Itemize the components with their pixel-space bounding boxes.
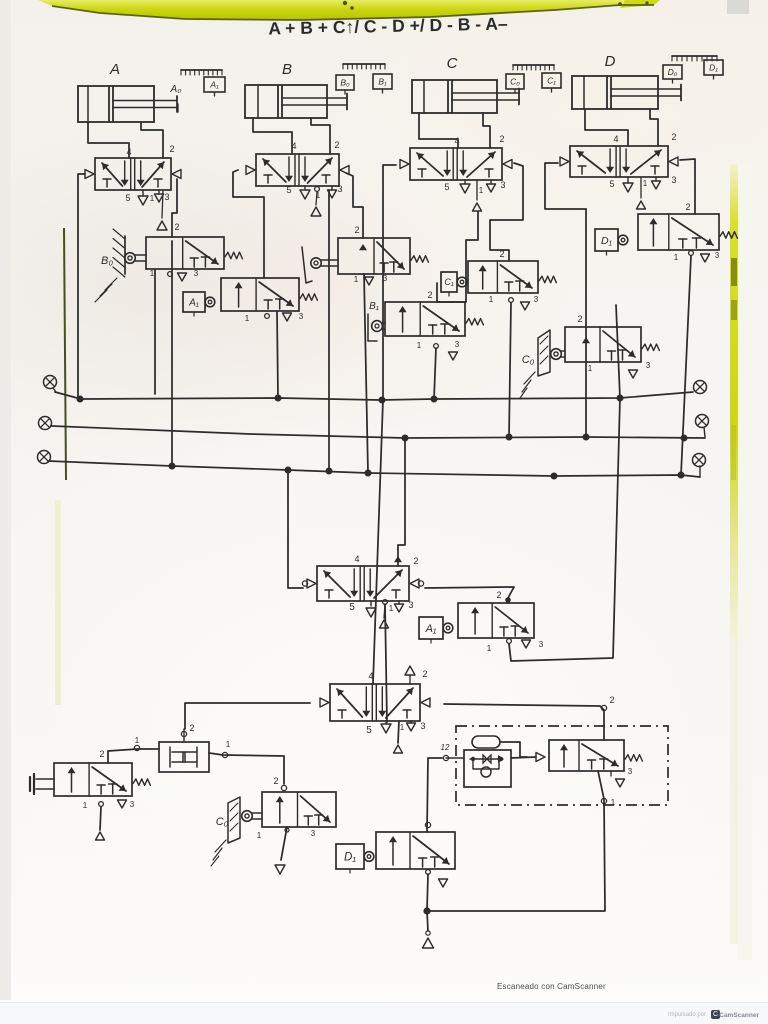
valve A1 actuator box [183,292,215,316]
svg-text:D₀: D₀ [668,67,678,77]
junction under mid valve 1 [383,600,388,605]
junction bus3 x554 [551,473,558,480]
wire cyl A rod to valve A port 2 [141,122,163,158]
wire valve B1 out2 up [437,212,478,302]
valve plunger 3/2 [54,763,150,796]
wire valve A left pilot to bus 1 [78,174,85,399]
svg-text:2: 2 [496,590,501,600]
valve B 5/2 [246,140,349,200]
valve B1 3/2 roller [369,301,483,336]
valve C1-row2 port labels [577,314,650,373]
valve D1-row2 actuator box [595,229,628,255]
svg-text:2: 2 [354,225,359,235]
wire bus3 to mid valve 1 left pilot [288,470,303,588]
valve D1-row2 port labels [674,202,720,262]
svg-text:5: 5 [609,179,614,189]
wire valve D1-bot out2 to flow control port 12 [427,758,442,832]
svg-text:2: 2 [422,669,427,679]
svg-text:1: 1 [150,194,155,203]
svg-text:3: 3 [628,767,633,776]
mid valve 1 5/2 [302,554,423,613]
svg-text:A: A [109,61,120,78]
svg-text:C₀: C₀ [522,354,535,366]
plunger actuator [30,774,54,794]
wire valve B1 port1 to bus 1 [434,348,436,399]
junction bus3 x368 [365,470,372,477]
valve A supply triangle [157,190,167,230]
svg-text:2: 2 [189,723,194,733]
bus line 1 [55,392,693,400]
wire supply feed x617 from bus1 to valve A1-mid port 1 [509,305,620,661]
junction at D1-bot top [425,822,430,827]
sensor box C1 [542,73,561,92]
svg-text:2: 2 [169,144,174,154]
valve C1-row2 roller actuator [551,349,565,360]
valve B1 exhaust triangle [434,344,458,360]
svg-text:3: 3 [534,295,539,304]
bottom supply stub [423,911,434,948]
bus line 2 [52,426,705,438]
valve A1 3/2 pushpin [221,278,317,311]
svg-text:3: 3 [420,721,425,731]
svg-text:4: 4 [354,554,359,564]
valve D supply triangle [637,177,646,209]
wire cyl D rod to valve D port 2 [650,109,658,146]
valve C0-mid exhaust triangle [509,298,530,310]
valve C0-bot roller actuator [242,811,262,822]
valve A1-mid out2 junction [505,597,511,603]
valve C1-row2 exhaust triangle [629,370,638,378]
svg-text:C: C [447,55,458,72]
top paper fold strip (decorative) [38,0,625,20]
valve B-lever exhaust triangle [365,277,374,285]
mid valve 2 5/2 [320,669,430,736]
svg-text:2: 2 [334,140,339,150]
wire valve D1-row2 out2 to valve D right pilot [680,159,695,214]
svg-text:3: 3 [646,361,651,370]
svg-text:1: 1 [611,798,616,807]
cylinder D [572,53,681,109]
svg-text:1: 1 [135,736,140,745]
svg-text:B: B [282,61,292,78]
svg-text:1: 1 [417,341,422,350]
valve A exhaust triangles [138,190,164,205]
svg-text:3: 3 [130,800,135,809]
junction bus1 x78 [77,396,84,403]
junction bus3 x681 [678,472,685,479]
svg-text:B₀: B₀ [340,78,350,88]
svg-text:3: 3 [715,251,720,260]
svg-text:D₁: D₁ [709,63,718,73]
pilot triangle of dashed valve [536,753,545,762]
wire mid valve 1 port1 down through mid valve 2 [385,604,387,722]
wire cyl B cap to valve B port 4 [253,118,292,154]
valve B supply triangle [311,187,321,216]
svg-text:D₁: D₁ [344,852,356,864]
valve B-lever 3/2 [338,238,428,274]
wire flow control to dashed valve [511,757,536,758]
valve B0 wall mount [95,229,125,302]
wire cyl B rod to valve B port 2 [311,118,330,154]
svg-text:2: 2 [577,314,582,324]
svg-text:3: 3 [539,640,544,649]
svg-text:3: 3 [164,192,169,202]
wire cyl C cap to valve C port 4 [419,113,458,148]
mid valve 1 exhaust triangles [366,601,404,617]
cylinder A [78,61,177,122]
wire pill to pilot of dashed valve [500,742,527,757]
svg-text:3: 3 [194,269,199,278]
dashed valve port labels [628,767,633,776]
valve C0-mid port labels [489,249,539,304]
wire valve A1 out2 to valve B left pilot [233,170,264,278]
svg-text:1: 1 [400,723,405,732]
sensor box B0 [336,75,354,94]
valve D1-bot 3/2 [376,832,455,869]
valve A1 port labels [245,312,304,323]
bus 1 left source [44,376,57,393]
junction bus3 x288 [285,467,292,474]
sensor box D1 [704,60,723,79]
sensor box B1 [373,74,392,93]
junction bus2 x509 [506,434,513,441]
wire valve C0-mid port1 to bus 2 [509,303,511,437]
valve B exhaust triangles [300,186,337,199]
wire flow box right to valve C0-bot port 2 [209,753,284,784]
ruler scale D [672,56,717,61]
svg-text:D: D [605,53,616,70]
svg-text:A₁: A₁ [209,80,219,90]
svg-text:4: 4 [126,147,131,157]
ruler scale C [513,65,554,70]
ruler scale A [181,70,222,75]
svg-text:5: 5 [349,602,355,613]
svg-text:1: 1 [257,831,262,840]
junction bus3 x172 [169,463,176,470]
valve D1-bot actuator box [336,844,374,873]
valve B0 exhaust triangle [178,273,187,281]
pilot reservoir pill [472,736,500,748]
wire valve B0 out2 to valve A right pilot [172,179,177,237]
junction bottom manifold [423,907,430,914]
junction bus1 x278 [275,395,282,402]
junction bus2 x405 [402,435,409,442]
bus line 3 [48,461,700,477]
svg-text:2: 2 [273,776,278,786]
bus 2 right source [696,415,709,438]
valve C0-mid actuator box [441,272,467,296]
svg-text:1: 1 [588,364,593,373]
wire A1-mid out2 to mid valve 1 right pilot [425,587,514,598]
valve C0-bot label [216,816,229,828]
svg-text:3: 3 [455,340,460,349]
svg-text:2: 2 [99,749,104,759]
svg-text:1: 1 [643,179,648,188]
svg-text:3: 3 [408,600,413,610]
wire valve C left pilot to bus 1 and to mid valve 2 port 4 [373,165,396,684]
valve C exhaust triangles [460,180,496,193]
valve C0-bot wall mount [211,797,240,866]
mid valve 2 exhaust triangles [381,721,416,733]
svg-text:4: 4 [368,671,373,681]
valve C1-row2 3/2 roller [522,327,660,366]
wire bus2 to mid valve 1 port 2 [394,438,405,566]
svg-text:1: 1 [354,275,359,284]
wire dashed valve port1 to bottom manifold [427,771,605,911]
wire mid valve 2 right pilot to dashed box valve [444,704,604,740]
svg-text:1: 1 [83,801,88,810]
valve B0 roller actuator [125,253,146,264]
wire valve D left pilot feed [545,163,586,209]
wire valve B0 port1 to bus 1 [154,270,156,394]
wire cyl D cap to valve D port 4 [585,109,628,146]
valve D1-row2 3/2 [638,214,737,250]
plunger valve supply triangle [96,807,105,840]
valve 3/2 in dashed box [549,740,642,771]
sensor box D0 [663,65,682,83]
valve D exhaust triangles [623,177,661,192]
wire mid valve 2 left pilot to flow box out [185,703,310,729]
wire D1-bot port1 to manifold [427,874,428,911]
svg-text:4: 4 [613,134,618,144]
wire plunger out2 to flow box [108,749,159,763]
svg-text:1: 1 [479,186,484,195]
sensor box C0 [506,74,524,93]
svg-text:2: 2 [499,134,504,144]
mid valve 2 port 2 arrow [405,666,415,684]
junction bus1 x383 [379,397,386,404]
svg-text:12: 12 [441,743,450,752]
node 1 at flow box left [134,736,139,751]
svg-text:D₁: D₁ [601,235,613,247]
wire valve C0-mid out2 to valve C right pilot [490,163,523,261]
svg-text:1: 1 [489,295,494,304]
svg-text:3: 3 [500,180,505,190]
svg-text:C₁: C₁ [547,76,556,86]
valve C 5/2 [400,134,512,195]
svg-text:2: 2 [413,556,418,566]
svg-text:5: 5 [286,185,291,195]
svg-text:B₁: B₁ [378,77,387,87]
plunger valve exhaust triangle [99,800,127,808]
flow box [159,742,209,772]
junction bus2 x586 [583,434,590,441]
svg-text:2: 2 [174,222,179,232]
valve B1 roller actuator [368,314,385,341]
valve B0 3/2 roller [101,237,242,269]
cylinder B [245,61,347,118]
valve B1 port labels [417,290,460,350]
bus 3 left source [38,451,51,464]
valve C0-bot port labels [257,829,316,840]
svg-text:3: 3 [671,175,676,185]
flow box top port 2 [181,723,194,742]
wire valve B port3 to bus 3 [328,190,330,471]
ruler scale B [343,64,385,69]
valve A1-mid 3/2 [458,603,534,638]
sensor box A1 [204,77,225,96]
junction under valve B0 [168,272,173,277]
svg-text:C₀: C₀ [216,816,229,828]
valve C0-mid 3/2 [468,261,556,293]
mid valve 2 supply triangle [394,721,403,753]
right edge strip (decorative) [730,164,738,644]
valve D1-bot exhaust triangle [426,870,448,887]
valve A1-mid exhaust triangle [507,639,531,648]
svg-text:2: 2 [671,132,676,142]
svg-text:3: 3 [337,184,342,194]
valve A1 exhaust triangle [265,313,292,321]
node 1 below dashed box [601,798,615,807]
svg-text:1: 1 [150,269,155,278]
wire valve A1 port1 to bus 1 [277,311,278,398]
node 12 of flow control [441,743,450,761]
label A0 [170,84,182,112]
wire through valve C1-row2 to bus 2 [585,209,587,437]
junction bus3 x329 [326,468,333,475]
junction bus1 x620 [617,395,624,402]
node 1 at flow box right [222,740,230,758]
svg-text:2: 2 [685,202,690,212]
wire through valve B0 to bus 3 [171,241,173,466]
svg-text:A + B + C↑/ C - D +/ D - B - A: A + B + C↑/ C - D +/ D - B - A– [268,13,508,38]
svg-text:1: 1 [674,253,679,262]
svg-text:A₀: A₀ [170,84,182,95]
valve B-lever roller actuator [302,247,338,283]
svg-text:C₁: C₁ [444,277,453,287]
junction bus2 x684 [681,435,688,442]
svg-text:5: 5 [125,193,130,203]
svg-text:B₀: B₀ [101,255,113,267]
svg-text:B₁: B₁ [369,301,379,312]
valve D 5/2 [560,132,678,189]
dashed valve exhaust triangle [611,771,625,787]
svg-text:C₀: C₀ [510,77,520,87]
svg-text:5: 5 [444,182,449,192]
valve A 5/2 [85,144,181,203]
title text A+B+C+/C-D+/D-B-A- [268,13,508,38]
valve D1-row2 exhaust triangle [689,251,710,262]
svg-text:5: 5 [366,725,372,736]
bus 1 right source [694,381,707,394]
svg-text:2: 2 [609,695,614,705]
valve C0-bot exhaust triangle [275,827,289,874]
node 2 at valve C0-bot [273,776,286,791]
node 2 at dashed box valve [601,695,614,711]
dashed enclosure box [456,726,668,805]
wire valve B-lever out2 to valve B right pilot [346,173,363,238]
wire cyl C rod to valve C port 2 [483,113,490,148]
svg-text:A₁: A₁ [188,298,199,309]
svg-text:1: 1 [487,644,492,653]
flow control valve [446,750,511,787]
valve C0-bot 3/2 [262,792,336,827]
svg-text:3: 3 [299,312,304,321]
svg-text:1: 1 [389,604,394,613]
svg-text:A₁: A₁ [425,623,437,635]
wire cyl A cap to valve A port 4 [88,122,129,158]
svg-text:4: 4 [454,136,459,146]
valve C supply triangle [473,180,482,211]
valve C1-row2 wall mount [520,330,550,398]
junction bus1 x434 [431,396,438,403]
bus 2 left source [39,417,52,430]
mid valve 1 supply triangle [380,604,389,628]
svg-text:1: 1 [226,740,231,749]
svg-text:1: 1 [245,314,250,323]
cylinder C [412,55,519,113]
wire valve D1-row2 port1 to bus 3 [681,256,691,475]
wire valve B-lever port1 to bus 3 [364,274,368,473]
svg-text:3: 3 [311,829,316,838]
plunger valve port labels [83,749,135,810]
svg-text:2: 2 [427,290,432,300]
valve A1-mid port labels [487,590,544,653]
valve B0 port labels [150,222,199,278]
bus 3 right source [693,454,706,477]
valve A1-mid actuator box [419,617,453,643]
left edge marks (decorative) [0,0,11,1000]
svg-text:4: 4 [291,141,296,151]
valve B-lever port labels [354,225,388,284]
